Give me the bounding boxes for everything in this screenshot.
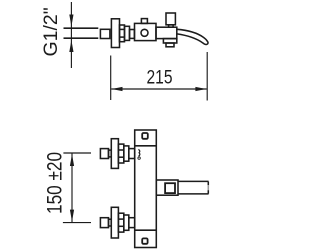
wire supply pipe top line (plan view) bbox=[64, 27, 99, 29]
upper inlet cylinder (front view) bbox=[124, 146, 129, 161]
arrow down (G1/2 dim) bbox=[69, 15, 73, 27]
pipe stub coupling (plan view) bbox=[100, 29, 110, 38]
spout curved (plan view) bbox=[177, 29, 208, 44]
svg-text:150 ±20: 150 ±20 bbox=[44, 152, 67, 214]
control circle on body (plan view) bbox=[141, 29, 148, 36]
spout inner square (front view) bbox=[165, 183, 175, 193]
small lever mark (front view) bbox=[138, 149, 139, 156]
body division line bottom (front view) bbox=[135, 229, 157, 231]
top bump on body (plan view) bbox=[141, 19, 147, 24]
upper inlet neck (front view) bbox=[129, 149, 135, 159]
dimension line 150 bbox=[71, 153, 73, 223]
spout base square (front view) bbox=[156, 180, 178, 195]
knob (plan view) bbox=[166, 13, 175, 25]
lower inlet flange (front view) bbox=[111, 207, 118, 238]
extension line left (215 dim) bbox=[110, 56, 112, 101]
extension line top (150 dim) bbox=[63, 152, 91, 154]
upper inlet flange (front view) bbox=[111, 139, 118, 169]
spout tube bottom line (front view) bbox=[178, 193, 209, 195]
arrow up (G1/2 dim) bbox=[69, 40, 73, 52]
mixer body (front view) bbox=[135, 130, 157, 248]
lower inlet cylinder (front view) bbox=[124, 215, 129, 230]
top mounting square (front view) bbox=[142, 133, 148, 139]
bottom mounting square (front view) bbox=[142, 238, 147, 243]
valve barrel (plan view) bbox=[156, 27, 177, 38]
lower inlet neck (front view) bbox=[129, 218, 135, 228]
extension line bottom (150 dim) bbox=[63, 222, 91, 224]
upper inlet stub (front view) bbox=[100, 149, 108, 159]
mixer body (plan view) bbox=[135, 23, 157, 40]
arrow down (150 dim) bbox=[70, 210, 74, 222]
wire supply pipe bottom line (plan view) bbox=[64, 37, 99, 39]
lower inlet hex nut (front view) bbox=[118, 213, 123, 232]
arrow right (215 dim) bbox=[195, 87, 206, 91]
dimension line for G1/2 pipe bbox=[70, 2, 72, 68]
svg-text:215: 215 bbox=[146, 66, 172, 88]
spout tube end cap (front view) bbox=[207, 182, 209, 194]
dimension line 215 bbox=[111, 88, 207, 90]
svg-text:G1/2": G1/2" bbox=[40, 7, 62, 56]
inlet neck (plan view) bbox=[130, 30, 135, 39]
lower inlet stub (front view) bbox=[100, 218, 108, 228]
lower inlet connector (front view) bbox=[109, 219, 112, 226]
knob stem (plan view) bbox=[169, 25, 174, 27]
upper inlet connector (front view) bbox=[109, 150, 112, 157]
arrow left (215 dim) bbox=[112, 87, 123, 91]
connector cylinder (plan view) bbox=[125, 26, 130, 40]
body division line top (front view) bbox=[135, 145, 157, 147]
wall flange (plan view) bbox=[111, 19, 119, 48]
lower collar (plan view) bbox=[163, 39, 176, 43]
extension line right (215 dim) bbox=[206, 52, 208, 101]
arrow up (150 dim) bbox=[70, 154, 74, 166]
hex nut (plan view) bbox=[120, 25, 125, 42]
small circle mark (front view) bbox=[138, 157, 140, 159]
upper inlet hex nut (front view) bbox=[118, 144, 123, 163]
spout tube top line (front view) bbox=[178, 180, 209, 182]
lower cap (plan view) bbox=[166, 43, 174, 47]
